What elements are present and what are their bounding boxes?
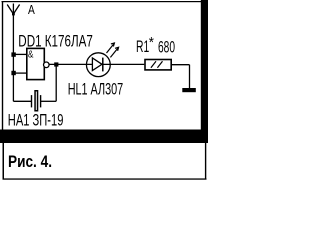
svg-text:&: & [28,49,33,60]
LED cathode bar [102,58,104,72]
antenna WA1 [7,4,19,15]
wire: branch down to piezo right [55,65,57,102]
LED arrow 1 [107,43,115,53]
antenna node dot [12,13,15,16]
LED arrow 2 [110,47,118,57]
wire: down to ground [189,65,191,89]
wire: input stub 1 [13,53,26,55]
piezo HA1 right plate [40,95,42,107]
piezo HA1 body [35,91,38,111]
resistor power slashes [151,61,163,68]
wire: piezo left horizontal [13,100,31,102]
svg-text:*: * [149,35,155,51]
svg-text:Рис. 4.: Рис. 4. [8,153,52,171]
svg-text:HL1 АЛ307: HL1 АЛ307 [68,80,124,98]
LED HL1 circle [86,53,110,77]
wire: gate output to LED [50,63,93,65]
junction dot input 2 [11,71,15,75]
piezo HA1 left plate [31,95,33,107]
gate output inversion bubble [44,62,50,68]
wire: piezo right horizontal [41,100,56,102]
wire: input stub 2 [13,72,26,74]
svg-text:680: 680 [158,39,175,57]
resistor R1 body [145,60,171,70]
junction dot input 1 [11,52,15,56]
svg-text:A: A [28,2,35,17]
gate DD1 body [27,48,45,79]
wire: resistor to ground corner [172,64,190,66]
svg-text:НА1 ЗП-19: НА1 ЗП-19 [8,111,64,129]
ground bar [182,88,196,92]
LED triangle [92,58,102,71]
svg-text:R1: R1 [136,38,149,56]
wire: antenna down to inputs and piezo (left vertical) [12,14,14,101]
junction dot output [54,62,58,66]
wire: LED to resistor [102,63,144,65]
